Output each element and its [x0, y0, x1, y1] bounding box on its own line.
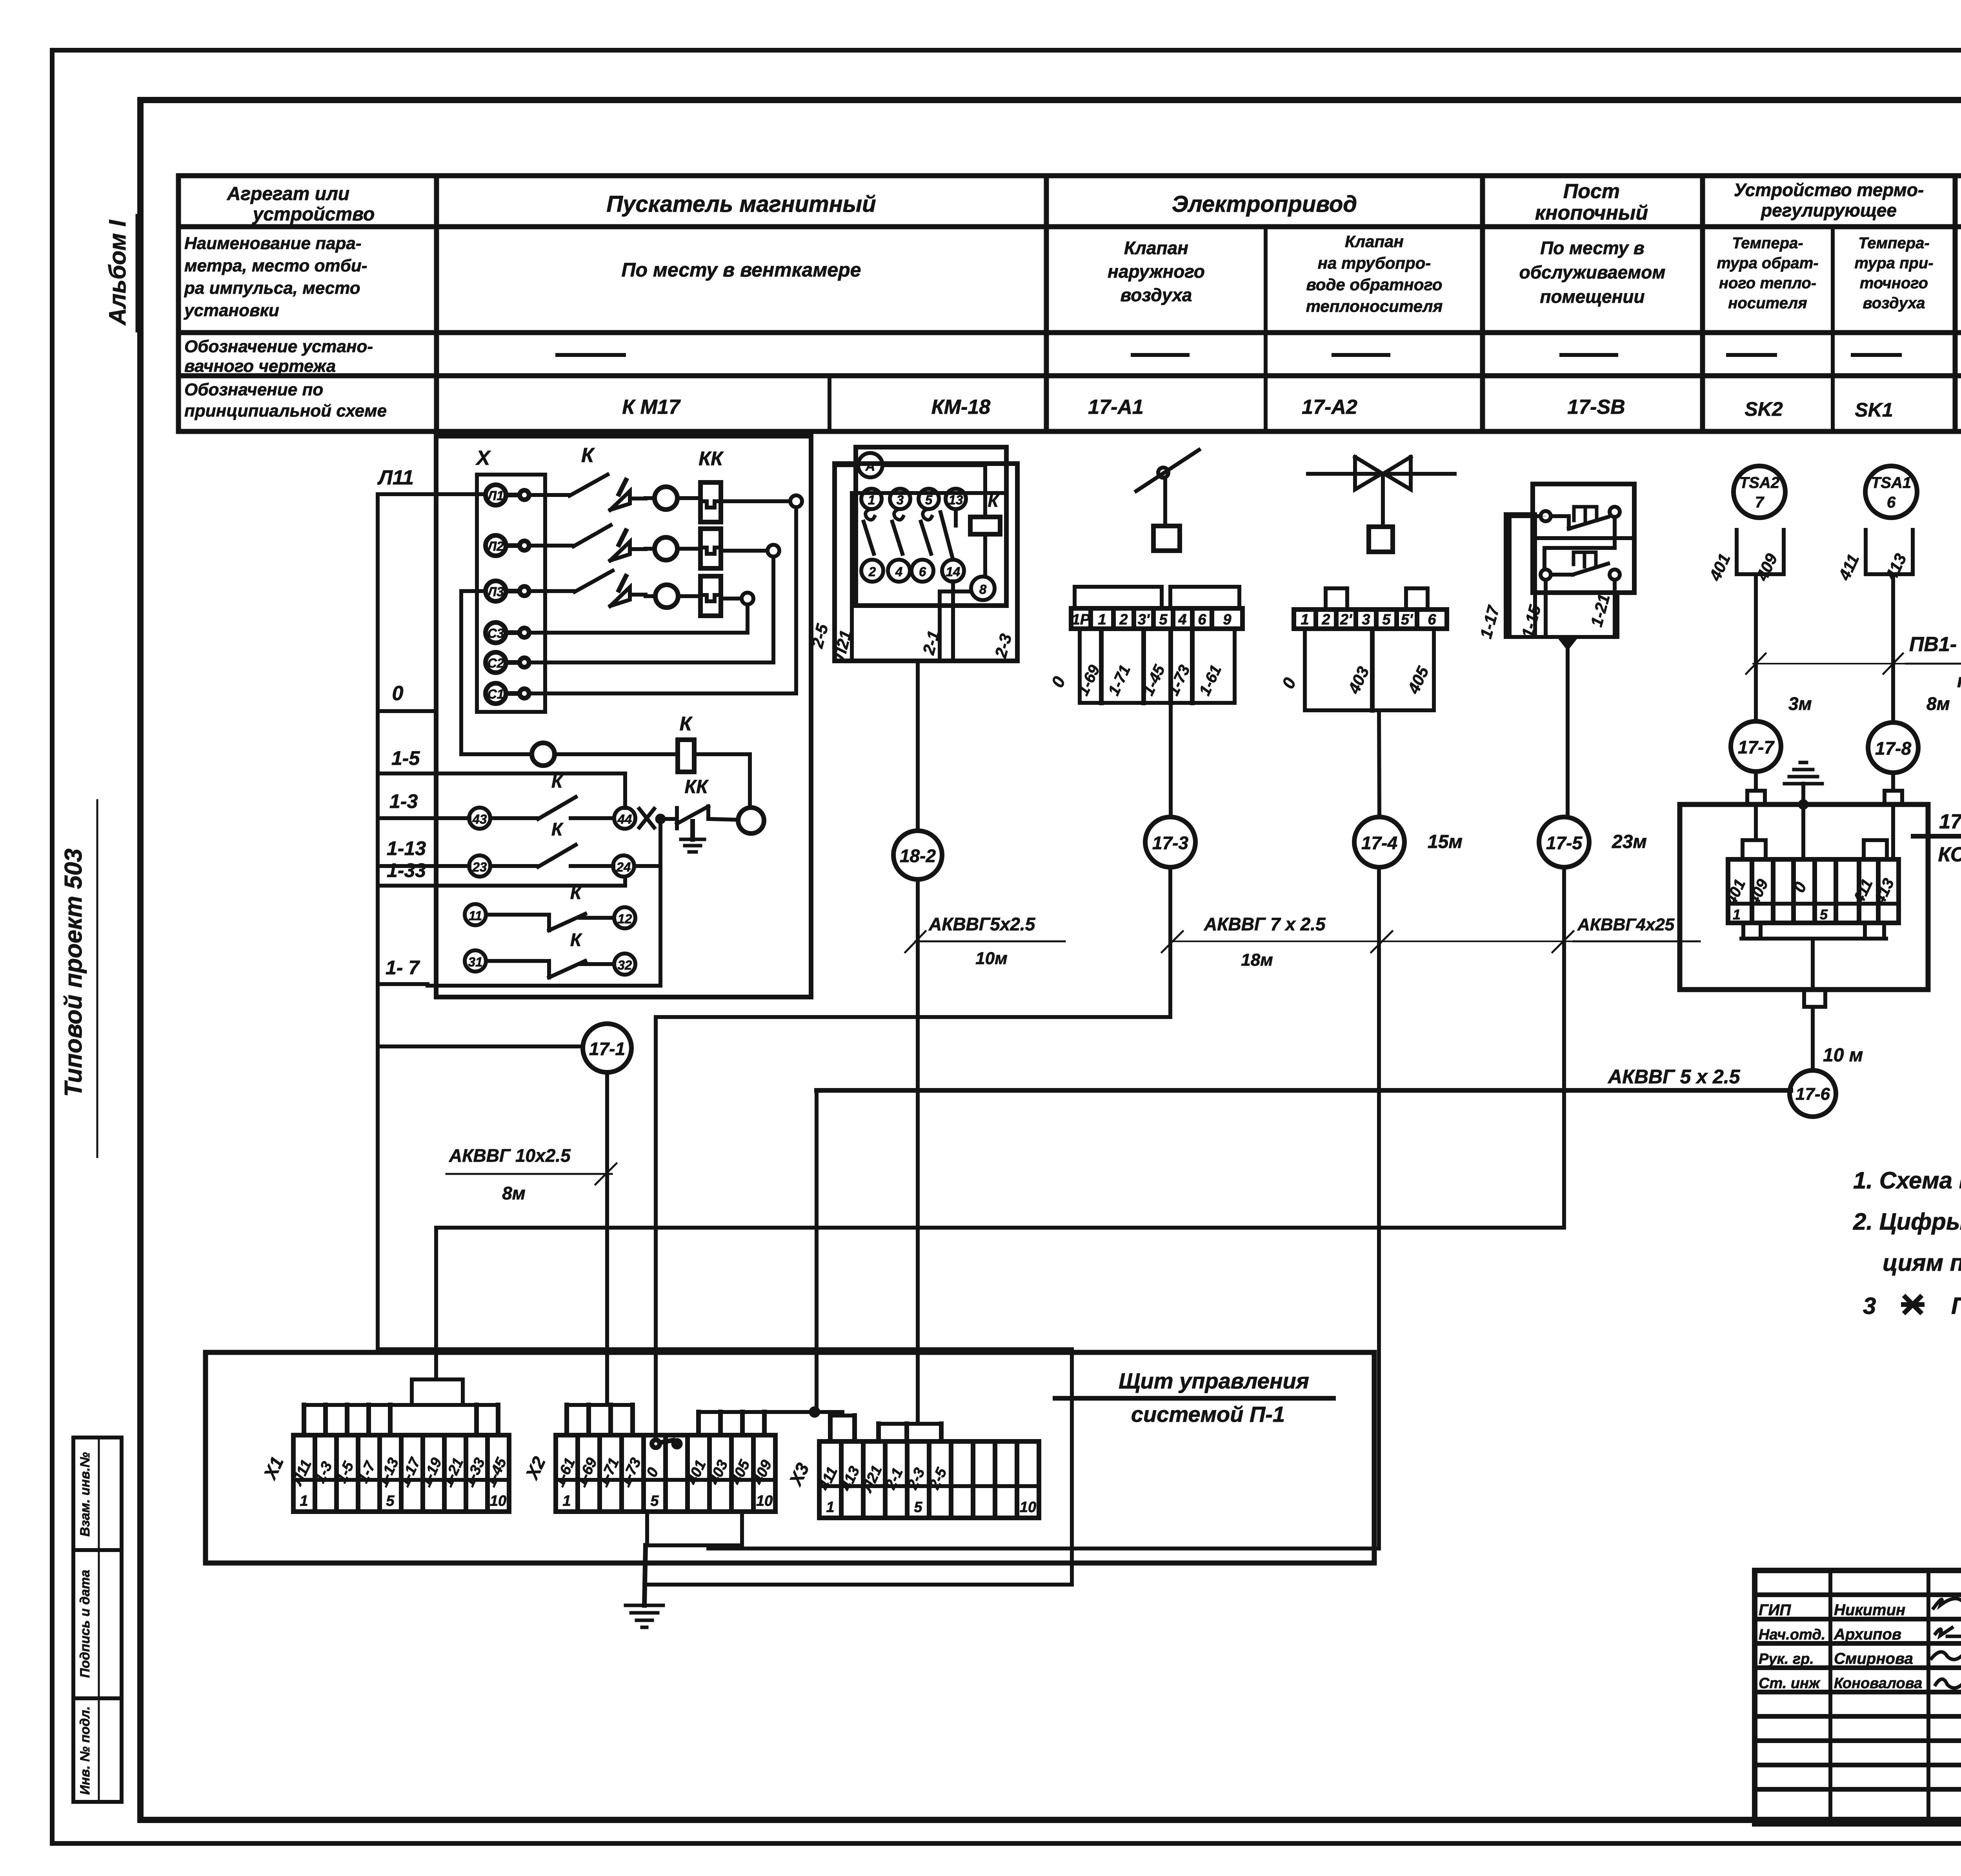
- svg-text:13: 13: [949, 493, 963, 507]
- plug contacts: [610, 491, 630, 510]
- svg-text:ГИП: ГИП: [1759, 1601, 1791, 1619]
- svg-text:Архипов: Архипов: [1834, 1626, 1901, 1643]
- valve 17-A2 drive box: [1369, 527, 1393, 552]
- svg-text:Обозначение по: Обозначение по: [184, 380, 323, 399]
- wire L3 to coil row: [461, 589, 486, 593]
- svg-text:5: 5: [650, 1493, 659, 1509]
- button contact bottom: [1541, 570, 1551, 580]
- svg-text:Агрегат или: Агрегат или: [227, 184, 350, 204]
- X1 inlet cover: [412, 1379, 463, 1405]
- cable down to 17-3: [1169, 703, 1173, 815]
- actuator 17-A1 lever: [1136, 450, 1199, 491]
- svg-text:SK1: SK1: [1855, 399, 1893, 421]
- svg-text:тура обрат-: тура обрат-: [1717, 255, 1818, 272]
- svg-text:6: 6: [1887, 494, 1896, 511]
- svg-text:17-ХТ: 17-ХТ: [1939, 810, 1961, 833]
- svg-text:воздуха: воздуха: [1863, 295, 1925, 312]
- svg-text:Л3: Л3: [487, 584, 504, 599]
- svg-text:11: 11: [469, 908, 482, 923]
- svg-text:К: К: [551, 771, 564, 792]
- svg-text:Л11: Л11: [377, 466, 414, 489]
- vent chamber box (KM17 area): [436, 436, 811, 997]
- KM-18 module box: [856, 447, 1006, 606]
- svg-text:метра, место отби-: метра, место отби-: [184, 256, 367, 275]
- svg-text:1: 1: [868, 493, 875, 507]
- inner aux box bottom: [427, 984, 660, 988]
- svg-text:6: 6: [1198, 611, 1206, 628]
- terminal block X: [477, 475, 545, 712]
- inner aux box right edge: [659, 822, 662, 986]
- svg-text:Коновалова: Коновалова: [1834, 1675, 1922, 1692]
- wire 17-7 to box: [1754, 772, 1758, 791]
- svg-text:помещении: помещении: [1540, 286, 1644, 307]
- svg-text:1-5: 1-5: [391, 747, 420, 769]
- svg-text:ПВ1- 2(1х1.0): ПВ1- 2(1х1.0): [1909, 633, 1961, 656]
- valve 17-A2 stem: [1381, 473, 1385, 527]
- svg-text:5: 5: [914, 1499, 922, 1516]
- phase junctions after KK: [721, 499, 790, 503]
- svg-text:КСК-8: КСК-8: [1938, 843, 1961, 866]
- svg-text:3: 3: [1362, 611, 1370, 628]
- svg-text:17-8: 17-8: [1875, 738, 1911, 759]
- svg-text:Л1: Л1: [487, 488, 504, 503]
- svg-text:ра импульса, место: ра импульса, место: [184, 278, 360, 298]
- KM-18 pin 3: [890, 489, 910, 509]
- svg-text:4: 4: [895, 564, 902, 579]
- lamp on coil row: [532, 743, 555, 766]
- X1 comb bus: [304, 1403, 498, 1407]
- svg-text:17-5: 17-5: [1546, 833, 1583, 853]
- KM-18 pin 5: [919, 489, 939, 509]
- X2 bottom bracket to ground: [645, 1512, 649, 1545]
- svg-text:п. 25: п. 25: [1957, 671, 1961, 691]
- svg-text:10: 10: [1020, 1499, 1036, 1516]
- svg-text:Подпись и дата: Подпись и дата: [78, 1570, 93, 1678]
- wire 17-3 to panel: [656, 1015, 1170, 1019]
- connector circle 18-2: [893, 831, 942, 879]
- svg-text:Пост: Пост: [1563, 180, 1620, 203]
- KM-18 internal wires: [951, 581, 955, 659]
- X3 inlet bracket 411-413: [830, 1414, 855, 1417]
- svg-text:тура при-: тура при-: [1854, 255, 1933, 272]
- svg-text:2: 2: [868, 564, 876, 579]
- svg-text:6: 6: [919, 564, 926, 579]
- box exit wire: [1811, 939, 1815, 990]
- connector circle 17-6: [1790, 1070, 1836, 1117]
- svg-text:1: 1: [562, 1493, 571, 1509]
- svg-text:К: К: [581, 444, 595, 467]
- svg-text:31: 31: [468, 955, 483, 969]
- svg-text:17-А1: 17-А1: [1088, 396, 1144, 419]
- table grid: [178, 173, 1961, 178]
- svg-text:24: 24: [616, 860, 631, 874]
- svg-text:3': 3': [1138, 611, 1150, 628]
- svg-text:2. Цифры в кружках приборов со: 2. Цифры в кружках приборов соответствую…: [1853, 1208, 1961, 1235]
- wire phase C1 return: [794, 507, 798, 693]
- ground symbol above box: [1801, 784, 1805, 804]
- actuator 17-A1 stem: [1163, 478, 1167, 526]
- svg-text:С2: С2: [488, 656, 504, 670]
- svg-text:АКВВГ5х2.5: АКВВГ5х2.5: [928, 914, 1036, 934]
- KM-18 pin 2: [861, 560, 883, 582]
- svg-text:0: 0: [392, 682, 404, 705]
- svg-text:Альбом I: Альбом I: [104, 220, 131, 326]
- svg-text:С3: С3: [488, 626, 504, 640]
- terminal X:Л1: [486, 485, 506, 505]
- terminal strip X2: [556, 1435, 775, 1512]
- TSA2 wires 401 409: [1735, 530, 1739, 574]
- svg-text:К: К: [570, 883, 582, 903]
- svg-text:10 м: 10 м: [1823, 1045, 1863, 1066]
- svg-text:Устройство термо-: Устройство термо-: [1734, 180, 1924, 200]
- button contact top: [1541, 511, 1551, 521]
- svg-text:X: X: [475, 447, 491, 469]
- svg-text:5: 5: [1820, 906, 1828, 923]
- svg-text:1: 1: [1098, 611, 1106, 628]
- svg-text:По месту в венткамере: По месту в венткамере: [622, 259, 861, 281]
- terminal X:С3: [486, 622, 506, 643]
- svg-text:17-SB: 17-SB: [1567, 396, 1625, 419]
- 17-A2 terminal strip covers: [1326, 588, 1347, 610]
- wire 17-5 to panel X1: [436, 1226, 1564, 1230]
- svg-text:АКВВГ 10х2.5: АКВВГ 10х2.5: [449, 1145, 571, 1166]
- cable AKVVG 10x2.5 8m: [605, 1072, 609, 1405]
- svg-text:К: К: [570, 930, 582, 950]
- terminal X:С1: [486, 683, 506, 704]
- svg-text:4: 4: [1178, 611, 1186, 628]
- svg-text:TSA1: TSA1: [1871, 474, 1911, 491]
- strip bottom connectors: [1743, 923, 1761, 939]
- terminal X:Л2: [486, 535, 506, 556]
- valve 17-A2 body: [1355, 457, 1382, 489]
- svg-text:кнопочный: кнопочный: [1535, 202, 1648, 224]
- row 11-12 contact: [465, 904, 486, 925]
- svg-text:18м: 18м: [1241, 950, 1273, 970]
- svg-text:Инв. № подл.: Инв. № подл.: [78, 1706, 93, 1795]
- svg-text:14: 14: [946, 564, 960, 579]
- svg-text:Типовой проект 503: Типовой проект 503: [60, 848, 87, 1097]
- svg-text:точного: точного: [1860, 275, 1928, 292]
- connector circle 17-3: [1145, 817, 1195, 867]
- box 17-XT outline: [1680, 804, 1928, 990]
- connector circle 17-5: [1539, 817, 1589, 867]
- svg-text:3м: 3м: [1788, 693, 1812, 714]
- svg-text:9: 9: [1223, 611, 1231, 628]
- svg-text:1-13: 1-13: [387, 837, 426, 859]
- svg-text:воздуха: воздуха: [1121, 285, 1192, 305]
- lamp circles: [646, 496, 655, 500]
- svg-text:обслуживаемом: обслуживаемом: [1519, 262, 1666, 282]
- svg-text:17-1: 17-1: [589, 1039, 625, 1059]
- svg-text:устройство: устройство: [252, 204, 375, 225]
- device TSA2 pos7: [1734, 466, 1785, 518]
- svg-text:Л2: Л2: [487, 539, 504, 553]
- svg-text:10м: 10м: [975, 949, 1008, 968]
- svg-text:Ст. инж: Ст. инж: [1759, 1675, 1821, 1692]
- 17-XT terminal strip: [1728, 859, 1899, 923]
- svg-text:32: 32: [618, 958, 632, 972]
- svg-text:вачного чертежа: вачного чертежа: [184, 357, 336, 376]
- svg-text:17-7: 17-7: [1738, 737, 1775, 757]
- panel ground wire: [644, 1545, 646, 1605]
- svg-text:17-6: 17-6: [1795, 1084, 1830, 1104]
- svg-text:Рук. гр.: Рук. гр.: [1759, 1651, 1814, 1667]
- svg-text:1: 1: [300, 1493, 308, 1509]
- 17-A1 terminal strip covers: [1075, 587, 1162, 608]
- KM-18 enclosure outer: [835, 464, 1017, 661]
- connector circle 17-1: [583, 1024, 631, 1072]
- cable down to 17-4: [1379, 710, 1379, 815]
- svg-text:1: 1: [1733, 906, 1741, 923]
- svg-text:КК: КК: [699, 448, 724, 469]
- svg-text:12: 12: [618, 912, 632, 926]
- 17-A1 wire box: [1080, 629, 1235, 703]
- svg-text:TSA2: TSA2: [1739, 474, 1779, 491]
- pushbutton post inner box: [1535, 593, 1617, 637]
- wire phase C3 return: [746, 604, 749, 633]
- cable marker AKVVG 7x2.5 18m: [1173, 941, 1680, 942]
- cable marker PV1-2: [1753, 663, 1961, 664]
- terminal X:С2: [486, 652, 506, 673]
- X2 comb cells 7-10 bus to X3: [699, 1410, 842, 1414]
- jumper removed mark: [639, 809, 654, 828]
- svg-text:2: 2: [1119, 611, 1128, 628]
- X2 zero cell switch symbol: [652, 1440, 660, 1448]
- svg-text:8м: 8м: [502, 1183, 526, 1203]
- svg-text:Электропривод: Электропривод: [1172, 191, 1357, 217]
- KM-18 pin 13: [946, 489, 966, 509]
- svg-text:ного тепло-: ного тепло-: [1719, 275, 1816, 292]
- svg-text:23м: 23м: [1612, 832, 1647, 852]
- strip top connectors: [1743, 840, 1766, 859]
- svg-text:8м: 8м: [1926, 693, 1950, 714]
- terminal X:Л3: [486, 581, 506, 601]
- margin stamp table: [73, 1437, 122, 1802]
- svg-text:2': 2': [1340, 611, 1353, 628]
- svg-text:5: 5: [925, 493, 933, 507]
- 17-A2 wire box: [1305, 629, 1434, 710]
- KM-18 cable down to 18-2: [916, 661, 920, 831]
- svg-text:Клапан: Клапан: [1124, 238, 1188, 258]
- title block signature columns: [1828, 1570, 1832, 1824]
- svg-text:1-3: 1-3: [389, 790, 418, 812]
- phase A terminal: [835, 463, 858, 467]
- svg-text:Щит управления: Щит управления: [1119, 1368, 1309, 1393]
- svg-text:SK2: SK2: [1745, 398, 1783, 420]
- svg-text:10: 10: [490, 1493, 506, 1509]
- svg-text:Темпера-: Темпера-: [1858, 235, 1929, 252]
- main title block: [1755, 1570, 1961, 1824]
- svg-text:1Р: 1Р: [1072, 611, 1090, 628]
- svg-text:С1: С1: [488, 687, 504, 701]
- svg-text:Пускатель магнитный: Пускатель магнитный: [606, 191, 876, 217]
- svg-text:КМ-18: КМ-18: [931, 396, 991, 419]
- svg-text:Никитин: Никитин: [1834, 1601, 1905, 1619]
- svg-text:6: 6: [1428, 611, 1436, 628]
- svg-text:теплоносителя: теплоносителя: [1306, 297, 1443, 315]
- svg-text:44: 44: [617, 812, 632, 826]
- svg-text:1: 1: [826, 1499, 834, 1516]
- svg-text:АКВВГ 7 х 2.5: АКВВГ 7 х 2.5: [1204, 914, 1326, 934]
- svg-text:циям по спецификации обо: циям по спецификации оборудования СО.: [1883, 1250, 1961, 1276]
- actuator 17-A1 body: [1153, 526, 1180, 551]
- connector circle 17-7: [1731, 721, 1781, 772]
- svg-text:на трубопро-: на трубопро-: [1318, 254, 1431, 272]
- pushbutton post 17-SB main box: [1533, 484, 1634, 593]
- row 31-32 contact: [465, 950, 486, 972]
- svg-text:системой П-1: системой П-1: [1131, 1402, 1285, 1427]
- svg-text:17-3: 17-3: [1152, 833, 1188, 853]
- X2 comb cells 1-4: [567, 1403, 633, 1407]
- svg-text:8: 8: [979, 582, 987, 597]
- svg-text:1: 1: [1301, 611, 1309, 628]
- svg-text:Смирнова: Смирнова: [1834, 1650, 1913, 1667]
- X3 inlet bracket 2-1 2-3: [879, 1422, 941, 1426]
- svg-text:1- 7: 1- 7: [386, 957, 420, 979]
- KM-18 pin 6: [911, 560, 933, 582]
- svg-text:10: 10: [756, 1493, 773, 1509]
- svg-text:5: 5: [386, 1493, 395, 1509]
- svg-text:5: 5: [1159, 611, 1168, 628]
- svg-text:КК: КК: [684, 777, 709, 797]
- wire 17-4 to X2 bracket: [708, 1547, 1379, 1550]
- svg-text:Наименование пара-: Наименование пара-: [184, 234, 362, 253]
- connector circle 17-8: [1868, 722, 1918, 773]
- svg-text:1. Схема выполнена на основани: 1. Схема выполнена на основании схем лис…: [1853, 1167, 1961, 1194]
- coil return circle: [738, 808, 764, 833]
- svg-text:А: А: [865, 459, 875, 474]
- KM-18 pin 1: [861, 489, 882, 509]
- wire 17-8 to box: [1891, 773, 1895, 791]
- svg-text:По месту в: По месту в: [1540, 238, 1644, 258]
- panel ground bus from L11 bus: [376, 1046, 380, 1349]
- svg-text:Темпера-: Темпера-: [1732, 235, 1803, 252]
- 17-A1 terminal strip: [1071, 608, 1242, 629]
- svg-text:7: 7: [1755, 494, 1765, 511]
- svg-text:5: 5: [1382, 611, 1391, 628]
- device TSA1 pos6: [1865, 466, 1917, 518]
- wire to 17-1: [378, 1044, 582, 1048]
- junction node: [657, 815, 664, 822]
- svg-text:Нач.отд.: Нач.отд.: [1759, 1627, 1825, 1643]
- TSA1 wires 411 413: [1864, 530, 1868, 574]
- svg-text:АКВВГ 5 х 2.5: АКВВГ 5 х 2.5: [1607, 1066, 1741, 1088]
- svg-text:23: 23: [472, 860, 487, 874]
- svg-text:регулирующее: регулирующее: [1760, 200, 1897, 220]
- pushbutton post 17-SB outer box: [1506, 514, 1535, 637]
- wire phase C2 return: [771, 557, 775, 662]
- connector circle 17-4: [1354, 817, 1404, 867]
- svg-text:К М17: К М17: [622, 396, 681, 419]
- KM-18 pin 8: [971, 577, 995, 600]
- svg-text:18-2: 18-2: [900, 846, 936, 866]
- svg-text:3: 3: [897, 493, 904, 507]
- svg-text:Перемычку снять.: Перемычку снять.: [1951, 1293, 1961, 1319]
- cable down to 17-5: [1566, 637, 1570, 817]
- KM-18 pin 13 link: [954, 509, 958, 526]
- 17-A2 terminal strip: [1294, 610, 1447, 629]
- svg-text:17-4: 17-4: [1361, 833, 1397, 853]
- svg-text:принципиальной схеме: принципиальной схеме: [184, 401, 387, 420]
- svg-text:15м: 15м: [1428, 832, 1463, 852]
- svg-text:1-33: 1-33: [387, 859, 426, 881]
- svg-text:3: 3: [1863, 1293, 1876, 1319]
- svg-text:43: 43: [472, 812, 487, 826]
- terminal strip X3: [819, 1441, 1039, 1518]
- svg-text:Обозначение устано-: Обозначение устано-: [184, 337, 373, 356]
- svg-text:2: 2: [1321, 611, 1330, 628]
- svg-text:Клапан: Клапан: [1345, 232, 1404, 251]
- svg-text:Взам. инв.№: Взам. инв.№: [78, 1452, 93, 1536]
- svg-text:воде обратного: воде обратного: [1306, 275, 1442, 294]
- valve 17-A2 pipe line: [1308, 472, 1455, 476]
- cable AKVVG 5x2.5 to 17-6: [815, 1090, 819, 1412]
- KM-18 pin 4: [888, 560, 910, 582]
- bus L11 vertical: [376, 494, 380, 1046]
- signatures scribbles: [1934, 1598, 1961, 1608]
- svg-text:установки: установки: [184, 301, 279, 320]
- svg-text:17-А2: 17-А2: [1302, 396, 1357, 419]
- terminal strip X1: [293, 1435, 509, 1512]
- post internal wires: [1541, 516, 1546, 517]
- svg-text:носителя: носителя: [1728, 295, 1807, 312]
- svg-text:К: К: [988, 491, 999, 511]
- wire L11: [378, 492, 486, 496]
- svg-text:АКВВГ4х25: АКВВГ4х25: [1577, 915, 1675, 934]
- label 17-XT KCK-8: [1913, 834, 1961, 839]
- panel box: [206, 1352, 1374, 1563]
- svg-text:К: К: [551, 819, 564, 839]
- svg-text:наружного: наружного: [1108, 261, 1205, 282]
- svg-text:5': 5': [1401, 611, 1413, 628]
- KM-18 pin 14: [942, 560, 964, 582]
- KM-18 top contacts bus: [852, 491, 1006, 495]
- svg-text:К: К: [680, 713, 693, 735]
